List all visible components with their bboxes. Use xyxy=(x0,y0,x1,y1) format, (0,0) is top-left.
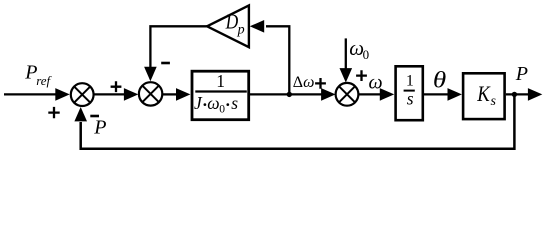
svg-text:0: 0 xyxy=(219,103,225,115)
arrowhead into S2 xyxy=(124,88,138,101)
arrowhead into Ks xyxy=(448,88,462,101)
svg-text:p: p xyxy=(237,23,245,38)
svg-text:D: D xyxy=(225,9,238,33)
svg-text:s: s xyxy=(491,94,497,109)
gain triangle Dp xyxy=(207,5,249,47)
svg-text:0: 0 xyxy=(363,47,370,62)
arrowhead omega0 into S3 top xyxy=(340,68,353,82)
wire G1 to S3 xyxy=(250,93,322,95)
block G3: Ks xyxy=(463,73,505,119)
svg-text:ref: ref xyxy=(36,73,52,88)
svg-text:ω: ω xyxy=(369,72,383,94)
svg-text:P: P xyxy=(515,63,528,85)
plus sign at S2 left input xyxy=(111,81,122,92)
wire 1/s to Ks xyxy=(424,93,449,95)
block G2: 1/s xyxy=(396,66,423,120)
summing junction S2 xyxy=(139,82,162,105)
plus sign at S3 top input xyxy=(356,70,367,81)
arrowhead into 1/s xyxy=(380,88,394,101)
arrowhead Dp path into S2 top xyxy=(144,67,157,81)
svg-text:P: P xyxy=(93,117,106,139)
arrowhead into block G1 xyxy=(176,88,190,101)
fraction bar of 1/s xyxy=(404,90,415,92)
node: junction dot at Delta-omega branch xyxy=(287,92,292,97)
svg-text:Δω: Δω xyxy=(293,74,315,91)
wire: Pref input line xyxy=(4,93,57,95)
plus sign at S3 left input xyxy=(315,78,326,89)
wire top feedback from node to Dp xyxy=(266,26,289,94)
svg-text:K: K xyxy=(476,81,490,106)
arrowhead feedback into S1 bottom xyxy=(74,107,87,121)
arrowhead output P xyxy=(528,88,542,101)
svg-text:ω: ω xyxy=(207,93,219,113)
svg-text:1: 1 xyxy=(406,72,414,89)
summing junction S1 xyxy=(71,83,94,106)
wire S3 to block 1/s xyxy=(358,93,381,95)
summing junction S3 xyxy=(336,83,359,106)
wire omega0 input (vertical) xyxy=(345,38,347,69)
svg-text:J: J xyxy=(194,93,203,113)
wire Dp output to S2 top xyxy=(150,26,207,68)
wire bottom feedback P xyxy=(81,94,515,148)
arrowhead into S3 xyxy=(321,88,335,101)
svg-text:1: 1 xyxy=(216,71,225,91)
arrowhead into summing junction S1 xyxy=(55,88,69,101)
plus sign at S1 left input xyxy=(48,107,59,118)
node: junction dot at P output branch xyxy=(512,92,517,97)
minus sign at S2 top input xyxy=(161,62,170,65)
svg-text:s: s xyxy=(231,93,238,113)
minus sign at S1 bottom input xyxy=(90,115,99,118)
block G1: 1/(J*w0*s) xyxy=(192,71,249,120)
fraction bar of G1 xyxy=(195,90,247,92)
wire S2 to block G1 xyxy=(162,93,177,95)
arrowhead into Dp right side xyxy=(250,20,264,33)
wire S1 to S2 xyxy=(94,93,125,95)
wire Ks to output xyxy=(506,93,529,95)
svg-text:θ: θ xyxy=(433,68,446,93)
svg-text:s: s xyxy=(407,89,414,109)
